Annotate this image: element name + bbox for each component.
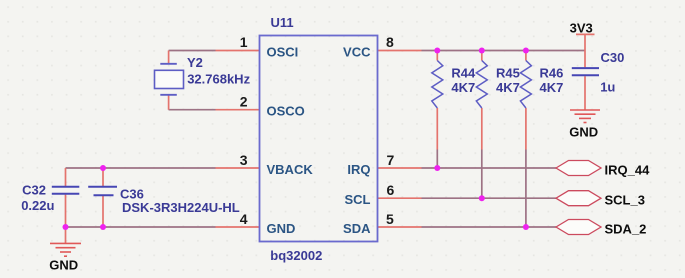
svg-text:SDA: SDA xyxy=(343,221,371,236)
svg-text:OSCO: OSCO xyxy=(267,104,305,119)
svg-text:U11: U11 xyxy=(271,15,294,30)
svg-text:32.768kHz: 32.768kHz xyxy=(187,71,250,86)
svg-text:SDA_2: SDA_2 xyxy=(605,222,647,237)
svg-text:4K7: 4K7 xyxy=(496,80,520,95)
svg-text:5: 5 xyxy=(386,211,394,227)
svg-text:6: 6 xyxy=(387,182,395,198)
svg-text:1: 1 xyxy=(240,34,248,50)
svg-text:C30: C30 xyxy=(601,50,625,65)
svg-text:C32: C32 xyxy=(22,182,46,197)
svg-text:GND: GND xyxy=(267,221,296,236)
svg-text:R45: R45 xyxy=(496,66,520,81)
svg-text:7: 7 xyxy=(387,152,395,168)
svg-text:GND: GND xyxy=(569,124,598,139)
svg-text:3V3: 3V3 xyxy=(570,20,593,35)
svg-text:VCC: VCC xyxy=(343,44,371,59)
svg-text:VBACK: VBACK xyxy=(267,162,314,177)
svg-text:8: 8 xyxy=(386,34,394,50)
svg-text:DSK-3R3H224U-HL: DSK-3R3H224U-HL xyxy=(122,200,240,215)
svg-text:bq32002: bq32002 xyxy=(270,248,322,263)
svg-text:1u: 1u xyxy=(600,80,615,95)
svg-text:IRQ_44: IRQ_44 xyxy=(605,163,651,178)
svg-text:R46: R46 xyxy=(540,66,564,81)
svg-text:IRQ: IRQ xyxy=(347,162,370,177)
svg-text:3: 3 xyxy=(240,152,248,168)
svg-text:GND: GND xyxy=(49,258,78,273)
svg-text:4: 4 xyxy=(240,211,248,227)
svg-text:Y2: Y2 xyxy=(187,55,203,70)
svg-text:SCL: SCL xyxy=(345,192,371,207)
svg-text:OSCI: OSCI xyxy=(267,45,299,60)
svg-text:2: 2 xyxy=(240,93,248,109)
svg-text:4K7: 4K7 xyxy=(540,80,564,95)
svg-text:0.22u: 0.22u xyxy=(21,198,54,213)
svg-text:SCL_3: SCL_3 xyxy=(605,193,645,208)
svg-text:R44: R44 xyxy=(451,66,476,81)
svg-text:4K7: 4K7 xyxy=(451,80,475,95)
